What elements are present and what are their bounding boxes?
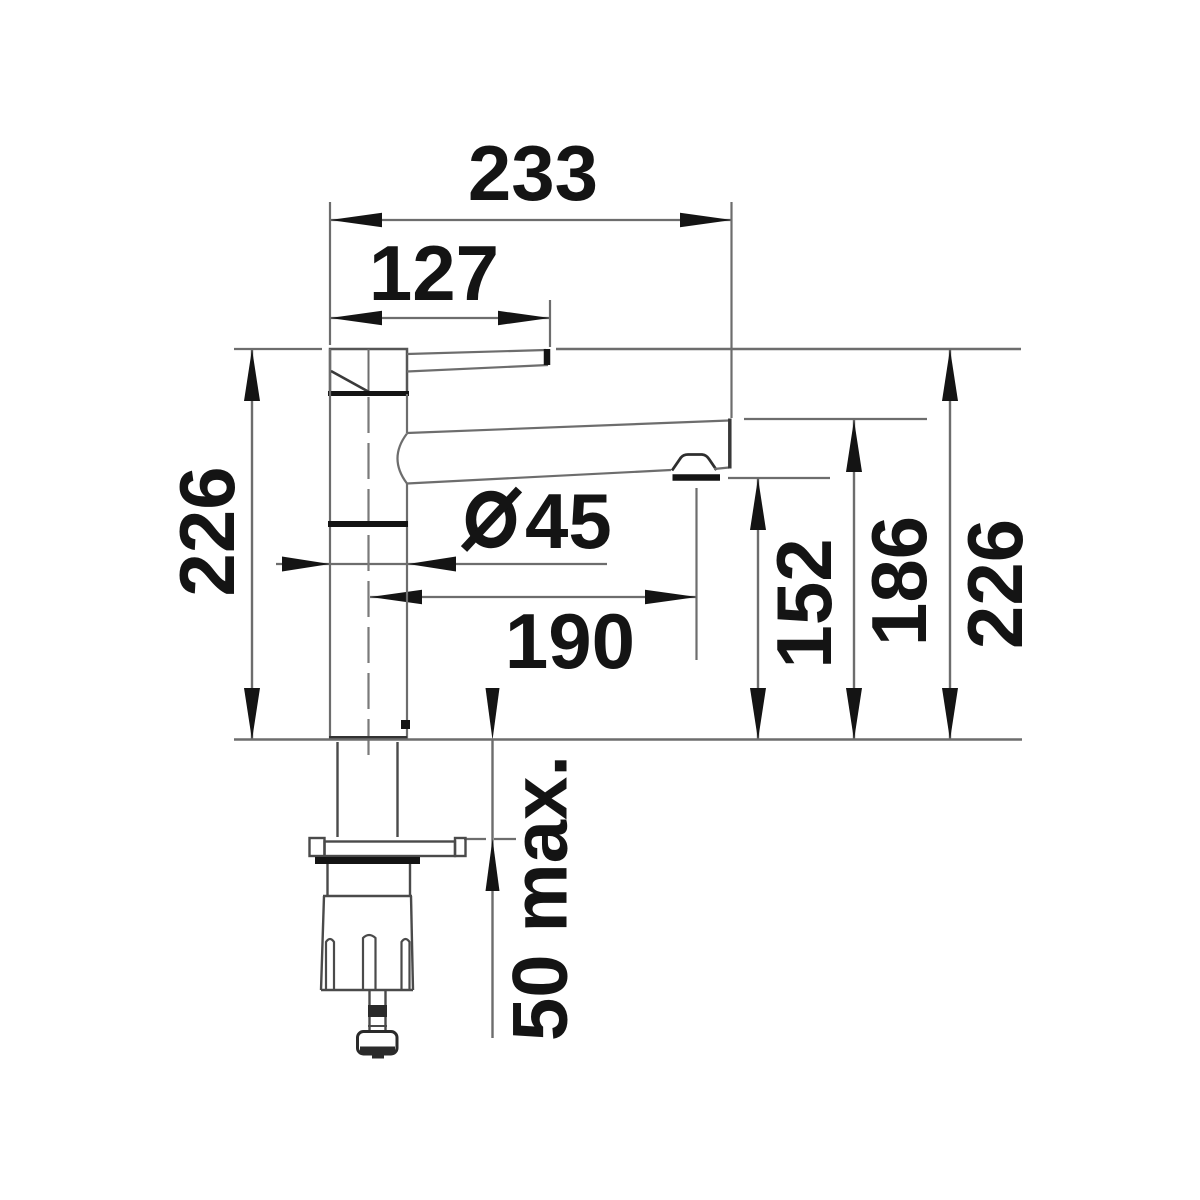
stud dark band bbox=[368, 1005, 387, 1017]
dimension 190 right extension line bbox=[695, 488, 697, 660]
cap bottom bold line bbox=[328, 391, 409, 396]
threaded stud right edge bbox=[384, 990, 386, 1032]
body right edge upper bbox=[406, 394, 408, 433]
cap diagonal bbox=[331, 371, 369, 392]
nut slot left bbox=[326, 939, 334, 990]
right 226 dimension line bbox=[942, 349, 958, 740]
nut slot right bbox=[402, 939, 410, 990]
dimension 233 line bbox=[330, 213, 732, 227]
shank left edge bbox=[336, 742, 338, 837]
dimension 233 left extension line bbox=[329, 202, 331, 345]
rubber seal bold line bbox=[315, 857, 420, 864]
top reference line (faucet top level) bbox=[556, 348, 1021, 350]
svg-text:50 max.: 50 max. bbox=[496, 755, 584, 1041]
screw head bottom band bbox=[360, 1047, 395, 1053]
svg-text:190: 190 bbox=[505, 597, 635, 685]
handle lever tip bbox=[544, 349, 551, 365]
handle lever bottom edge bbox=[407, 365, 548, 372]
threaded stud left edge bbox=[368, 990, 370, 1032]
cap center line bbox=[368, 349, 370, 394]
svg-text:226: 226 bbox=[163, 466, 251, 596]
left 226 top tick bbox=[234, 348, 322, 350]
dimension 127 line bbox=[330, 311, 550, 325]
svg-text:233: 233 bbox=[468, 129, 598, 217]
body center line dashed bbox=[367, 397, 369, 762]
handle lever top edge bbox=[407, 350, 546, 354]
dimension 152 line bbox=[750, 478, 766, 740]
spout top edge bbox=[407, 421, 729, 434]
body bold divider bbox=[328, 521, 408, 527]
dimension Ø45 line bbox=[276, 557, 607, 572]
dimension 127 right extension line bbox=[549, 300, 551, 347]
stud lower line bbox=[368, 1025, 387, 1027]
mounting nut right edge bbox=[411, 896, 413, 990]
dimension 190 line bbox=[370, 590, 697, 604]
aerator bump outline bbox=[672, 455, 717, 471]
svg-text:127: 127 bbox=[369, 229, 499, 317]
50 max dashed reference line bbox=[464, 838, 524, 840]
aerator face bold line bbox=[673, 474, 721, 481]
50 max dimension line bbox=[486, 688, 500, 1038]
washer plate left cap bbox=[310, 838, 325, 856]
spout back arc bbox=[398, 434, 408, 484]
dimension 233 right extension line bbox=[730, 202, 732, 418]
faucet handle cap bbox=[330, 349, 407, 394]
spout bottom edge bbox=[407, 470, 671, 484]
screw head nub bbox=[372, 1053, 384, 1059]
svg-text:186: 186 bbox=[855, 516, 943, 646]
152 reference line bbox=[728, 477, 830, 479]
label Ø45 diameter symbol bbox=[464, 490, 519, 550]
spout tip bottom line bbox=[714, 468, 729, 470]
screw head outline bbox=[358, 1032, 398, 1055]
collar bottom / nut top line bbox=[323, 895, 412, 897]
counter top line bbox=[234, 738, 1022, 740]
body bottom dark edge bbox=[329, 736, 407, 740]
mounting nut bottom edge bbox=[321, 989, 413, 991]
washer plate main bbox=[325, 842, 456, 857]
svg-text:226: 226 bbox=[951, 519, 1039, 649]
body left edge bbox=[329, 349, 331, 739]
washer plate right cap bbox=[455, 838, 466, 856]
collar right edge bbox=[409, 864, 411, 896]
body right edge lower bbox=[406, 484, 408, 740]
collar left edge bbox=[326, 864, 328, 896]
svg-text:152: 152 bbox=[760, 538, 848, 668]
spout tip right edge bbox=[728, 419, 732, 469]
nut slot middle bbox=[363, 935, 376, 990]
dimension 186 line bbox=[846, 420, 862, 740]
svg-text:45: 45 bbox=[525, 477, 612, 565]
mounting nut left edge bbox=[321, 896, 324, 990]
186 reference line bbox=[744, 418, 927, 420]
black dot at body lower right bbox=[401, 720, 410, 729]
shank right edge bbox=[396, 742, 398, 837]
left 226 dimension line bbox=[244, 349, 260, 740]
